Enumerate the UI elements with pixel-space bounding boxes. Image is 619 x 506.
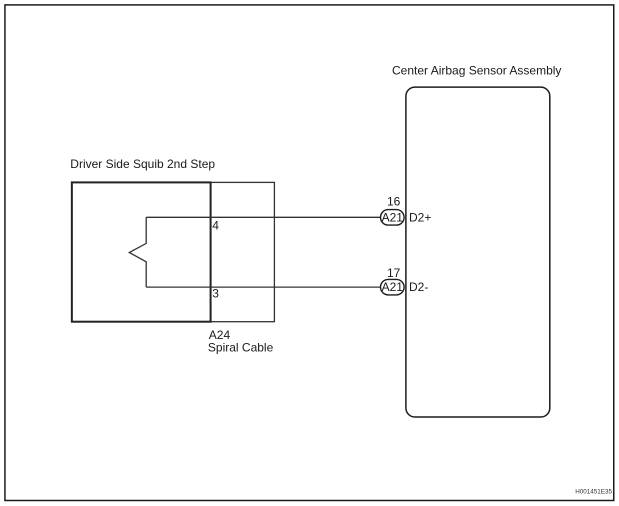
squib box: Driver Side Squib 2nd Step (72, 182, 211, 321)
ECU box: Center Airbag Sensor Assembly (406, 87, 550, 417)
svg-text:A21: A21 (382, 280, 404, 294)
connector A24 spiral cable box (211, 182, 275, 321)
squib element zigzag (129, 217, 146, 287)
wire D2+ (squib to pin 16) (146, 216, 380, 218)
svg-text:3: 3 (212, 287, 219, 301)
connector oval A21 pin 17 (381, 279, 405, 295)
svg-text:Driver Side Squib 2nd Step: Driver Side Squib 2nd Step (70, 157, 215, 171)
svg-text:D2+: D2+ (409, 210, 431, 224)
connector oval A21 pin 16 (381, 210, 405, 226)
svg-text:D2-: D2- (409, 280, 428, 294)
svg-text:4: 4 (212, 219, 219, 233)
svg-text:H001451E35: H001451E35 (575, 489, 612, 496)
svg-text:17: 17 (387, 266, 401, 280)
wire D2- (squib to pin 17) (146, 286, 380, 288)
svg-text:16: 16 (387, 194, 401, 208)
svg-text:Center Airbag Sensor Assembly: Center Airbag Sensor Assembly (392, 64, 561, 78)
svg-text:A21: A21 (382, 210, 404, 224)
svg-text:Spiral Cable: Spiral Cable (208, 340, 274, 354)
